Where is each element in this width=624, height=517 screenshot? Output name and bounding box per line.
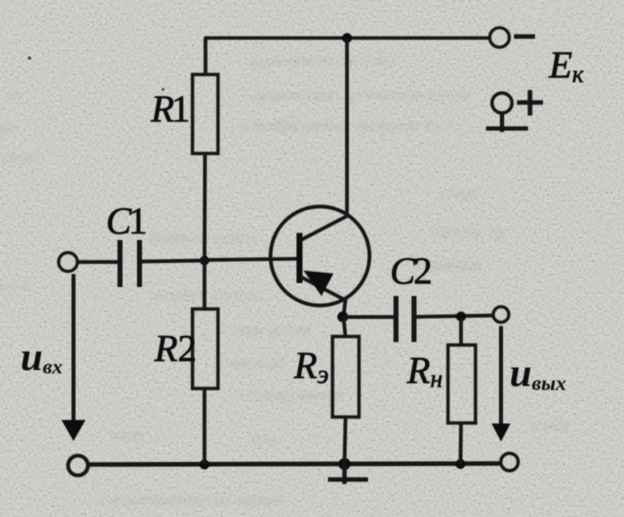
svg-text:ме: ме [0,118,18,137]
wire: top rail to R1 [204,38,208,76]
svg-text:R2: R2 [154,328,197,370]
svg-text:следу: следу [440,183,481,202]
wire: emitter to emitter node [344,299,346,317]
capacitor C1 [120,240,140,287]
terminal stem and crossbar under Ek plus [486,113,528,132]
node: base junction [200,256,210,266]
terminal: input top [59,253,78,272]
wire: Rn to bottom rail [459,423,463,464]
wire: input terminal to C1 [78,260,119,264]
wire: C1 to base node [142,261,205,262]
wire: base node to R2 [203,261,207,310]
node: emitter junction [337,311,348,322]
svg-text:ныполне тю по стол: ныполне тю по стол [250,51,396,70]
wire: R1 to base node [203,154,207,262]
svg-text:ав: ав [6,85,22,104]
svg-text:вх б: вх б [0,277,29,296]
wire: output node to Rn [459,317,463,346]
capacitor C2 [396,296,414,342]
node: emitter ground junction [339,458,351,470]
svg-text:апряжения с усилителя равно: апряжения с усилителя равно [255,85,469,104]
node: output junction [456,312,466,322]
terminal: output top [493,307,509,323]
terminal: Ek plus [492,93,512,113]
svg-text:напр: напр [110,425,144,444]
svg-text:сопротивление ых одного: сопротивление ых одного [100,490,286,509]
ground [328,464,368,484]
terminal: output bottom [501,453,518,470]
wire: Re to bottom rail [345,417,346,464]
wire: R2 to bottom rail [203,389,207,465]
wire: collector to top rail [345,38,349,215]
svg-text:и коэффициент передачи вх: и коэффициент передачи вх [240,116,441,135]
svg-text:тем: тем [250,429,276,448]
svg-text:следо: следо [0,148,41,167]
wire: C2 to output node [417,316,493,317]
transistor VT1 [271,207,370,306]
terminal: input bottom [68,456,88,476]
svg-text:котор: котор [530,415,570,434]
resistor Rn [448,345,476,423]
svg-text:C2: C2 [390,251,432,293]
label: minus sign [514,34,535,39]
wire: top supply rail [204,36,489,39]
svg-text:блярное сопро: блярное сопро [150,228,255,247]
terminal: Ek minus [490,28,510,48]
wire: emitter node to Re [344,317,346,337]
node: Rn bottom junction [456,459,466,469]
label: plus sign [517,90,543,116]
resistor R1 [193,75,219,154]
node: R2 bottom junction [200,460,210,470]
svg-text:R1: R1 [150,89,190,131]
svg-text:напряж пр: напряж пр [430,222,505,241]
svg-text:C1: C1 [106,201,147,243]
resistor Re [333,337,360,418]
arrow u_vyx [492,326,511,442]
node: collector junction on top rail [342,33,352,43]
resistor R2 [193,309,219,389]
wire: base node to transistor base [205,259,298,260]
wire: emitter node to C2 [343,315,394,319]
wire: bottom rail [89,464,500,465]
svg-text:каскадо: каскадо [230,353,286,372]
arrow u_vx [62,274,86,441]
svg-text:схем усили: схем усили [230,320,311,339]
